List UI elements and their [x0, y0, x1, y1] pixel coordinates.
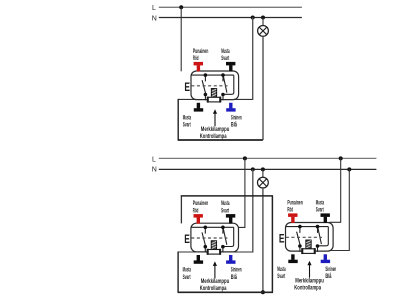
- wire feed top run T1: [181, 195, 273, 197]
- wire bottom link B1: [178, 291, 274, 293]
- svg-text:L: L: [152, 156, 156, 163]
- node junction N drop 2: [347, 167, 351, 171]
- wire lamp return rise 1: [177, 252, 179, 293]
- switch device S1 (bottom left): [183, 200, 242, 292]
- svg-text:N: N: [152, 15, 157, 22]
- wire lamp return drop: [262, 36, 264, 140]
- node junction on L: [179, 5, 183, 9]
- wire red feed drop 1: [180, 196, 182, 224]
- node junction lamp on N: [261, 167, 265, 171]
- wire L feed 2: [330, 158, 341, 226]
- svg-text:L: L: [152, 5, 156, 12]
- wire lamp return bottom: [178, 139, 263, 141]
- node junction L feed 1: [243, 156, 247, 160]
- wire lamp stub: [262, 18, 264, 26]
- wire line L: [159, 157, 377, 159]
- node junction lamp return: [261, 290, 265, 294]
- wire L feed 1: [232, 158, 245, 227]
- wire line L: [159, 6, 302, 8]
- wire lamp stub: [262, 169, 264, 177]
- switch device S2 (bottom right): [277, 199, 336, 291]
- wire N drop 2: [326, 169, 349, 250]
- wire lamp return rise: [177, 99, 179, 141]
- lamp symbol: [258, 177, 269, 188]
- wire bottom run to terminals 1: [178, 251, 253, 253]
- lamp symbol: [258, 26, 269, 37]
- node junction N drop 1: [251, 167, 255, 171]
- wire N drop: [252, 18, 254, 100]
- wire L feed drop: [180, 7, 182, 71]
- wire N drop 1: [252, 169, 254, 252]
- node junction lamp on N: [261, 16, 265, 20]
- node junction on N: [251, 16, 255, 20]
- wire line N: [159, 17, 302, 19]
- wire bottom run to terminals: [178, 98, 253, 100]
- wire line N: [159, 168, 377, 170]
- svg-text:N: N: [152, 167, 157, 174]
- switch device S (top): [183, 48, 242, 140]
- node junction L feed 2: [339, 156, 343, 160]
- wire link rise V1: [271, 196, 273, 292]
- wire lamp return drop: [262, 188, 264, 292]
